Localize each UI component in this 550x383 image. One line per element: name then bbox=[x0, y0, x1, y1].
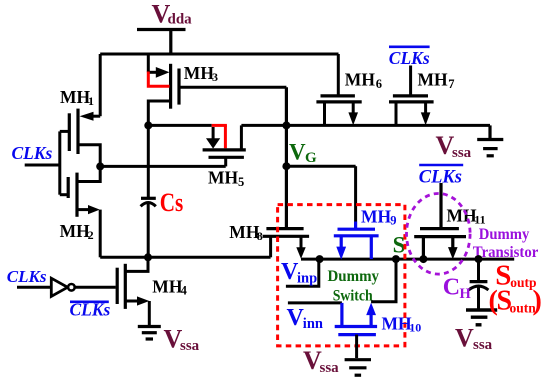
svg-text:7: 7 bbox=[448, 77, 454, 91]
ground MH10 bbox=[345, 360, 371, 376]
wire top rail bbox=[100, 53, 338, 56]
svg-text:V: V bbox=[455, 324, 474, 353]
node junction rail-VG bbox=[282, 121, 290, 129]
label CLKsbar MH11 bbox=[419, 165, 463, 187]
wire MH6 left lead bbox=[323, 102, 326, 126]
power symbol Vdda bar bbox=[137, 30, 186, 55]
wire MH5 gate lead bbox=[224, 157, 227, 166]
wire MH10 gate stem bbox=[355, 335, 358, 358]
label MH9 bbox=[361, 207, 397, 228]
transistor MH9 bbox=[334, 222, 379, 260]
svg-text:5: 5 bbox=[238, 175, 244, 189]
svg-text:MH: MH bbox=[229, 222, 260, 242]
label MH11 bbox=[447, 206, 486, 227]
wire CLKs input bbox=[25, 164, 60, 167]
label Vinp bbox=[281, 259, 317, 286]
svg-text:V: V bbox=[289, 140, 306, 165]
svg-text:inp: inp bbox=[297, 271, 317, 287]
svg-text:C: C bbox=[443, 275, 460, 301]
inverter U1 bbox=[51, 278, 74, 296]
wire MH5 right lead bbox=[240, 125, 243, 149]
arrow MH3 bbox=[156, 67, 170, 78]
svg-text:ssa: ssa bbox=[180, 338, 200, 354]
label Vssa MH4 bbox=[164, 325, 200, 355]
svg-text:MH: MH bbox=[361, 207, 392, 227]
wire MH7 right lead bbox=[424, 102, 427, 113]
svg-text:Dummy: Dummy bbox=[479, 226, 530, 243]
transistor MH5 bbox=[203, 150, 246, 157]
transistor MH2 bbox=[68, 173, 77, 217]
label Vssa MH10 bbox=[303, 346, 339, 376]
label CLKsbar MH7 bbox=[389, 47, 430, 68]
dummy transistor ellipse purple dashed bbox=[407, 194, 471, 275]
svg-text:MH: MH bbox=[60, 87, 91, 107]
label VG bbox=[289, 140, 317, 167]
svg-text:G: G bbox=[305, 150, 317, 166]
svg-text:MH: MH bbox=[345, 70, 376, 90]
transistor MH8 bbox=[263, 229, 310, 237]
wire bottom rail bbox=[100, 256, 270, 259]
arrow MH8 bbox=[296, 247, 305, 259]
svg-text:MH: MH bbox=[447, 206, 478, 226]
wire MH3 feed bbox=[148, 54, 158, 72]
wire MH1 source bbox=[78, 145, 100, 167]
node junction rail-Cs bbox=[144, 121, 152, 129]
arrow MH9 bbox=[336, 247, 346, 260]
svg-text:MH: MH bbox=[184, 63, 215, 83]
svg-text:2: 2 bbox=[88, 228, 94, 242]
svg-text:CLKs: CLKs bbox=[389, 48, 430, 68]
svg-text:ssa: ssa bbox=[473, 337, 493, 353]
wire MH2 source bbox=[77, 210, 100, 258]
wire node to MH5 gate bbox=[100, 165, 226, 168]
label Vinn bbox=[287, 305, 323, 332]
arrow MH1 drain bbox=[80, 112, 94, 121]
node junction MH1-MH2 bbox=[96, 162, 104, 170]
arrow MH5 bbox=[206, 127, 220, 149]
wire MH1 gate stub bbox=[60, 130, 70, 133]
node junction Cs-MH4 bbox=[144, 253, 152, 261]
wire MH2 drain bbox=[77, 166, 100, 181]
label Soutn bbox=[489, 286, 542, 317]
label Dummy Transistor bbox=[473, 226, 539, 261]
node junction MH11 bbox=[419, 255, 427, 263]
svg-text:): ) bbox=[533, 286, 542, 317]
label Vssa CH bbox=[455, 324, 493, 354]
transistor MH4 bbox=[117, 264, 125, 309]
svg-text:Transistor: Transistor bbox=[473, 244, 539, 261]
svg-text:1: 1 bbox=[88, 94, 94, 108]
svg-text:V: V bbox=[287, 305, 305, 331]
node junction Vinp bbox=[316, 255, 324, 263]
svg-text:8: 8 bbox=[257, 229, 263, 243]
label Dummy Switch bbox=[328, 268, 380, 305]
svg-text:ssa: ssa bbox=[452, 145, 472, 161]
svg-text:MH: MH bbox=[418, 70, 449, 90]
svg-text:inn: inn bbox=[303, 316, 323, 332]
wire red MH5 drain bbox=[212, 125, 227, 148]
wire MH1 drain bbox=[92, 54, 100, 116]
arrow MH7 bbox=[421, 112, 431, 125]
svg-text:3: 3 bbox=[212, 70, 218, 84]
svg-text:MH: MH bbox=[208, 168, 239, 188]
ground CH bbox=[466, 310, 497, 325]
transistor MH10 bbox=[335, 303, 377, 335]
wire VG to MH9 gate bbox=[286, 166, 355, 221]
ground Vssa top right bbox=[477, 125, 503, 155]
arrow MH6 bbox=[348, 112, 358, 125]
wire VG rail bbox=[148, 124, 490, 127]
svg-text:4: 4 bbox=[181, 284, 188, 298]
wire MH4 drain bbox=[125, 257, 148, 271]
svg-text:Cs: Cs bbox=[160, 188, 184, 217]
node junction CH bbox=[475, 255, 483, 263]
transistor MH11 bbox=[414, 183, 466, 259]
wire MH8 right lead bbox=[300, 236, 303, 248]
svg-text:MH: MH bbox=[152, 277, 183, 297]
wire inverter output bbox=[75, 286, 116, 289]
wire Vinn bbox=[288, 301, 342, 304]
svg-text:6: 6 bbox=[376, 77, 382, 91]
wire MH4 source bbox=[125, 301, 149, 325]
label MH1 bbox=[60, 87, 94, 108]
svg-text:9: 9 bbox=[390, 214, 396, 228]
svg-text:CLKs: CLKs bbox=[7, 267, 47, 286]
transistor MH6 bbox=[316, 96, 361, 102]
capacitor CH bbox=[469, 259, 489, 309]
svg-text:H: H bbox=[460, 286, 472, 302]
transistor MH3 bbox=[171, 64, 179, 109]
label MH2 bbox=[60, 221, 94, 242]
wire S rail bbox=[301, 258, 514, 261]
label MH6 bbox=[345, 70, 382, 92]
svg-text:MH: MH bbox=[382, 313, 413, 333]
wire MH8 left lead bbox=[269, 236, 272, 257]
svg-text:ssa: ssa bbox=[320, 360, 340, 376]
wire MH7 left lead bbox=[395, 102, 398, 126]
wire gate line CLKs bbox=[60, 131, 68, 194]
arrow MH10 bbox=[366, 303, 376, 316]
label Vssa top right bbox=[436, 131, 472, 161]
dummy switch box red dashed bbox=[278, 205, 405, 346]
arrow MH2 source bbox=[88, 205, 100, 214]
wire MH3 bottom lead bbox=[148, 101, 169, 125]
capacitor Cs bbox=[141, 125, 156, 257]
node junction VG bbox=[282, 162, 290, 170]
wire MH6 right lead bbox=[352, 102, 355, 113]
arrow MH11 bbox=[448, 247, 458, 259]
wire MH10 to S bbox=[371, 259, 396, 302]
svg-text:CLKs: CLKs bbox=[12, 143, 53, 163]
label Vdda bbox=[152, 0, 193, 29]
label Soutp bbox=[495, 260, 536, 292]
label MH8 bbox=[229, 222, 262, 243]
wire VG vertical bbox=[285, 87, 288, 227]
wire MH6 gate feed bbox=[337, 54, 340, 96]
svg-text:Dummy: Dummy bbox=[328, 268, 380, 285]
label MH7 bbox=[418, 70, 455, 92]
wire MH7 gate feed bbox=[409, 66, 412, 96]
label MH10 bbox=[382, 313, 422, 334]
wire inverter input bbox=[17, 286, 51, 289]
wire Vinp bbox=[286, 259, 319, 286]
transistor MH7 bbox=[389, 96, 434, 102]
wire red bootstrap MH3 bbox=[148, 72, 169, 87]
label CH bbox=[443, 275, 472, 303]
transistor MH1 bbox=[69, 109, 78, 154]
svg-text:CLKs: CLKs bbox=[70, 300, 111, 320]
svg-text:dda: dda bbox=[168, 12, 193, 28]
label MH3 bbox=[184, 63, 218, 84]
label MH4 bbox=[152, 277, 187, 298]
label CLKsbar inverter bbox=[70, 300, 111, 320]
ground MH4 bbox=[138, 327, 161, 340]
label MH5 bbox=[208, 168, 244, 189]
node junction S bbox=[392, 255, 400, 263]
svg-text:11: 11 bbox=[474, 213, 485, 227]
wire MH3 gate lead bbox=[180, 86, 286, 89]
arrow MH4 source bbox=[137, 296, 149, 305]
svg-text:10: 10 bbox=[409, 321, 421, 335]
svg-text:MH: MH bbox=[60, 221, 91, 241]
